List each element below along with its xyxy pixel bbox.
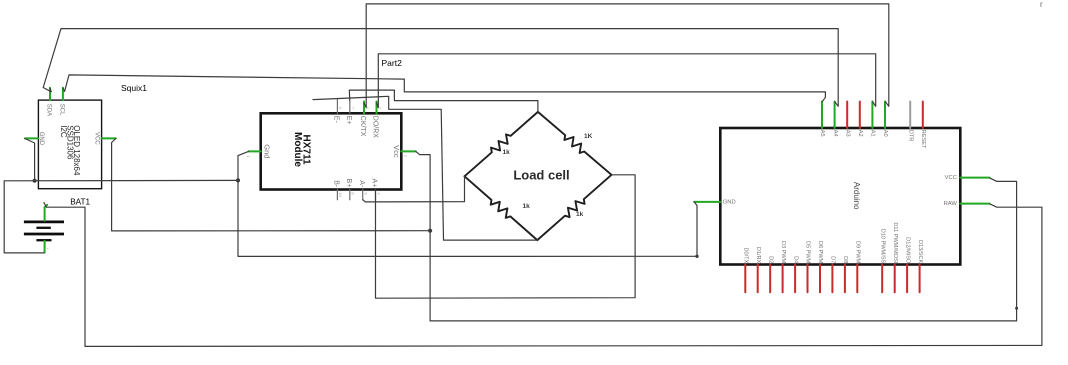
HX711 label Module [292,132,303,167]
HX711 pin DO/RX [376,102,378,114]
resistor R4 1k bottom-right bridge arm [537,175,611,240]
Arduino pin A5 label [819,130,825,137]
HX711 pin B+ label [345,179,352,188]
resistor R1 1k top-left bridge arm [465,112,538,176]
svg-text:r: r [1040,0,1043,9]
svg-text:GND: GND [38,132,44,146]
Arduino pin GND [694,201,720,203]
Arduino pin DTR label [907,130,913,142]
Arduino pin D13/SCK [919,265,921,293]
svg-text:-: - [47,247,49,253]
svg-text:SDA: SDA [46,104,52,116]
Arduino pin A4 [834,102,836,129]
HX711 pin A+ label [371,179,378,188]
HX711 pin Vcc label [392,145,401,158]
svg-text:A3: A3 [844,130,850,137]
HX711 pin 8 number [351,192,356,195]
HX711 pin 5 number [365,107,370,110]
Arduino pin D10 PWM/SS [881,265,883,293]
junction ground rail at HX711 Gnd [236,178,240,182]
battery BAT1 negative lead [44,241,46,253]
resistor R1 value 1k [503,149,511,156]
Arduino pin RAW label [944,201,958,207]
HX711 pin A- label [358,180,365,188]
battery BAT1 minus mark [47,247,49,253]
HX711 pin E- stub [336,99,338,113]
Arduino pin A1 [871,102,873,129]
resistor R2 1K top-right bridge arm [538,112,612,175]
svg-text:Gnd: Gnd [262,144,271,158]
OLED pin GND [25,137,39,139]
Arduino pin D9 PWM [856,265,858,293]
HX711 pin 1 number [246,155,251,158]
wire HX711 CK/TX to Arduino A0 [364,4,889,108]
Arduino pin D0/TX [744,265,746,293]
svg-text:Part2: Part2 [382,58,403,68]
Arduino pin VCC label [945,175,957,181]
svg-text:Arduino: Arduino [852,182,861,210]
svg-text:A5: A5 [819,130,825,137]
HX711 pin CK/TX label [359,116,366,137]
wire battery+ to Arduino RAW [44,203,1042,347]
HX711 pin B+ stub [349,190,351,200]
wire OLED SCL to Arduino A5 [63,75,826,102]
HX711 pin Gnd label [262,144,271,158]
OLED display U Squix1 body [38,100,101,189]
svg-text:A4: A4 [832,130,838,137]
Arduino pin D0/TX label [743,247,749,263]
svg-text:B-: B- [333,180,340,188]
svg-text:D8: D8 [842,256,848,263]
svg-text:VCC: VCC [94,132,100,145]
OLED pin SCL label [59,104,65,116]
svg-text:BAT1: BAT1 [70,198,90,207]
Arduino pin D6 PWM label [817,241,823,264]
svg-text:D5 PWM: D5 PWM [805,241,811,264]
svg-text:VCC: VCC [945,175,957,181]
Arduino pin VCC [960,177,989,179]
Arduino pin A5 [821,102,823,129]
Arduino pin A0 [884,102,886,129]
Arduino pin D7 [831,265,833,293]
OLED pin VCC [102,137,116,139]
svg-text:B+: B+ [345,179,352,188]
HX711 pin 3 number [377,107,382,110]
svg-text:I2C: I2C [59,125,68,138]
HX711 pin Gnd [249,150,261,152]
battery BAT1 plate short [36,227,50,229]
svg-text:RAW: RAW [944,201,958,207]
svg-text:D11 PWM/MOSI: D11 PWM/MOSI [892,222,898,263]
junction bend on Arduino VCC riser [1015,307,1018,310]
svg-text:GND: GND [723,199,736,205]
stray label fragment top right [1040,0,1043,9]
wire HX711 DO/RX to Arduino A1 [377,54,876,108]
svg-text:A2: A2 [857,130,863,137]
HX711 pin B- label [333,180,340,188]
Arduino pin A3 label [844,130,850,137]
Arduino pin A1 label [870,130,876,137]
wire HX711 Gnd to Arduino GND [238,151,697,256]
Arduino pin D2 [769,265,771,293]
OLED pin SDA label [46,104,52,116]
HX711 pin E- label [333,116,340,124]
HX711 pin E+ label [345,116,352,125]
HX711 pin 7 number [351,107,356,110]
Arduino pin D12/MISO label [904,237,910,264]
wire OLED VCC to VCC node [112,139,431,231]
svg-text:RESET: RESET [920,130,926,149]
Arduino pin RESET label [920,130,926,149]
HX711 pin B- stub [336,190,338,200]
svg-text:A1: A1 [870,130,876,137]
wire OLED GND to ground rail [25,139,35,181]
Arduino pin D11 PWM/MOSI label [892,222,898,263]
Arduino pin DTR [909,102,911,129]
wire HX711 E+ to bridge top node [349,90,538,112]
resistor R4 value 1k [576,211,584,218]
HX711 pin Vcc [401,150,416,152]
svg-text:1k: 1k [576,211,584,218]
Arduino pin D7 label [830,256,836,263]
Arduino pin A2 label [857,130,863,137]
load cell label [513,168,569,183]
svg-text:Load cell: Load cell [513,168,569,183]
wire HX711 Vcc to Arduino VCC [416,151,1017,321]
svg-text:1k: 1k [503,149,511,156]
Arduino pin A4 label [832,130,838,137]
OLED label SSD1306 [65,125,74,160]
svg-text:1k: 1k [523,203,531,210]
svg-text:A0: A0 [882,130,888,137]
junction bend at Arduino GND riser [695,255,698,258]
Arduino pin D1/RX [757,265,759,293]
HX711 pin 4 number [376,192,381,195]
Arduino pin D4 [794,265,796,293]
wire battery- to ground rail [4,180,238,253]
Arduino pin D8 [844,265,846,293]
wire HX711 A- to bridge left node [363,176,465,202]
HX711 pin E+ stub [349,100,351,113]
svg-text:E+: E+ [345,116,352,125]
HX711 pin A+ stub [375,190,377,200]
battery BAT1 plate short bottom [36,239,51,241]
OLED label OLED 128x64 [72,125,81,176]
svg-text:D0/TX: D0/TX [743,247,749,263]
junction ground rail at OLED GND [33,179,37,183]
OLED label I2C [59,125,68,138]
battery BAT1 plate long bottom [24,233,64,236]
wire HX711 A+ to bridge right node [376,175,636,298]
Arduino pin RESET [922,102,924,129]
OLED pin SCL [62,88,64,100]
svg-text:Vcc: Vcc [392,145,401,158]
HX711 pin A- stub [362,190,364,200]
resistor R3 1k bottom-left bridge arm [465,176,538,240]
svg-text:D12/MISO: D12/MISO [904,237,910,264]
Arduino pin A0 label [882,130,888,137]
svg-text:D1/RX: D1/RX [755,247,761,264]
battery BAT1 plate long top [24,221,64,224]
svg-text:E-: E- [333,116,340,124]
part label Part2 [382,58,403,68]
HX711 pin 6 number [364,192,369,195]
svg-text:DO/RX: DO/RX [372,116,379,139]
svg-text:D13/SCK: D13/SCK [917,240,923,264]
resistor R3 value 1k [523,203,531,210]
part label BAT1 [70,198,90,207]
junction VCC node [428,229,432,233]
svg-text:D10 PWM/SS: D10 PWM/SS [879,229,885,264]
Arduino pin D3 PWM label [780,241,786,264]
OLED pin SDA [49,88,51,100]
Arduino pin D4 label [792,256,798,263]
Arduino pin D8 label [842,256,848,263]
HX711 pin CK/TX [363,102,365,114]
Arduino pin D12/MISO [906,265,908,293]
Arduino pin D6 PWM [819,265,821,293]
svg-text:SCL: SCL [59,104,65,116]
svg-text:D7: D7 [830,256,836,263]
HX711 pin 2 number [404,155,409,158]
svg-text:A-: A- [358,180,365,188]
HX711 pin 10 number [338,192,343,197]
Arduino pin D5 PWM label [805,241,811,264]
svg-text:DTR: DTR [907,130,913,142]
Arduino Part2 body [720,128,960,265]
wire HX711 E- to bridge bottom node [313,96,537,240]
svg-text:10: 10 [338,192,343,197]
battery BAT1 positive lead [45,205,48,221]
svg-text:Squix1: Squix1 [121,83,147,93]
svg-text:A+: A+ [371,179,378,188]
svg-text:D2: D2 [767,256,773,263]
Arduino pin D10 PWM/SS label [879,229,885,264]
Arduino pin D1/RX label [755,247,761,264]
Arduino pin D9 PWM label [855,241,861,264]
svg-text:Module: Module [292,132,303,167]
Arduino pin RAW [960,203,989,205]
Arduino pin D3 PWM [782,265,784,293]
svg-text:CK/TX: CK/TX [359,116,366,137]
svg-text:D4: D4 [792,256,798,263]
resistor R2 value 1K [584,133,593,140]
Arduino pin A2 [859,102,861,129]
HX711 module body [261,113,402,189]
HX711 pin 9 number [338,107,343,110]
svg-text:1K: 1K [584,133,593,140]
Arduino pin D11 PWM/MOSI [894,265,896,293]
svg-text:D9 PWM: D9 PWM [855,241,861,264]
OLED pin GND label [38,132,44,146]
Arduino pin GND label [723,199,736,205]
wire OLED SDA to Arduino A4 [43,29,838,107]
HX711 label HX711 [300,134,311,164]
svg-text:D3 PWM: D3 PWM [780,241,786,264]
Arduino pin D13/SCK label [917,240,923,264]
Arduino pin D5 PWM [807,265,809,293]
part label Squix1 [121,83,147,93]
Arduino pin A3 [846,102,848,129]
Arduino pin D2 label [767,256,773,263]
OLED pin VCC label [94,132,100,145]
HX711 pin DO/RX label [372,116,379,139]
Arduino label [852,182,861,210]
svg-text:D6 PWM: D6 PWM [817,241,823,264]
